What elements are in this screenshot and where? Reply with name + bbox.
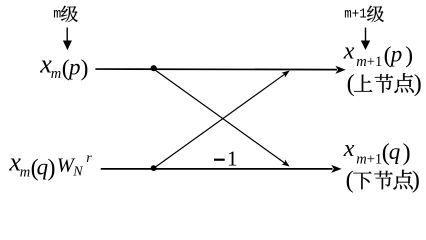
svg-text:m+1: m+1 — [344, 7, 366, 22]
wire: bottom horizontal line from Xm(q)WNr — [101, 168, 333, 170]
arrowhead: bottom line output arrow into Xm+1(q) — [331, 165, 341, 173]
svg-text:+1: +1 — [367, 54, 382, 70]
svg-text:): ) — [405, 43, 413, 69]
svg-text:m: m — [20, 165, 30, 181]
svg-text:p: p — [67, 55, 81, 80]
node: top junction dot on line (p) — [151, 65, 157, 71]
svg-text:): ) — [412, 168, 420, 194]
svg-text:q: q — [37, 154, 49, 179]
label: output Xm+1(p) top-right — [343, 39, 413, 70]
svg-text:(: ( — [347, 71, 355, 97]
wire: cross branch from bottom node up to top line — [154, 74, 286, 169]
svg-text:): ) — [403, 140, 411, 166]
svg-text:p: p — [389, 42, 403, 67]
svg-text:): ) — [414, 71, 422, 97]
label: (lower node) annotation 下节点 — [346, 168, 420, 194]
svg-text:x: x — [343, 136, 355, 162]
svg-text:q: q — [389, 139, 401, 164]
svg-text:): ) — [81, 56, 89, 82]
svg-text:x: x — [343, 39, 355, 65]
svg-text:m: m — [51, 66, 61, 82]
svg-text:+1: +1 — [367, 151, 382, 167]
svg-text:N: N — [72, 165, 83, 180]
label: input Xm(q)WNr bottom-left — [8, 148, 92, 182]
svg-text:1: 1 — [227, 147, 238, 171]
wire: top horizontal line from Xm(p) — [95, 68, 337, 71]
label: stage "m级" (m-th stage) — [53, 6, 78, 23]
label: stage "m+1级" (m+1-th stage) — [344, 6, 384, 23]
arrowhead: end of down-going cross branch — [281, 159, 289, 166]
svg-text:(: ( — [346, 168, 354, 194]
node: bottom junction dot on line (q) — [151, 165, 157, 171]
svg-text:): ) — [48, 155, 56, 181]
label: (upper node) annotation 上节点 — [347, 71, 422, 97]
label: multiplier -1 on bottom line — [214, 147, 238, 171]
arrow: left down-arrow pointing to stage m column — [63, 28, 72, 51]
label: output Xm+1(q) bottom-right — [343, 136, 411, 167]
svg-text:m: m — [356, 54, 366, 70]
label: input Xm(p) top-left — [39, 50, 88, 82]
arrow: right down-arrow pointing to stage m+1 column — [361, 28, 370, 51]
svg-text:m: m — [356, 151, 366, 167]
arrowhead: end of up-going cross branch — [281, 71, 289, 78]
arrowhead: top line output arrow into Xm+1(p) — [335, 66, 345, 74]
wire: cross branch from top node down to bottom line — [154, 69, 286, 164]
svg-text:r: r — [86, 151, 92, 166]
svg-text:m: m — [53, 7, 61, 22]
